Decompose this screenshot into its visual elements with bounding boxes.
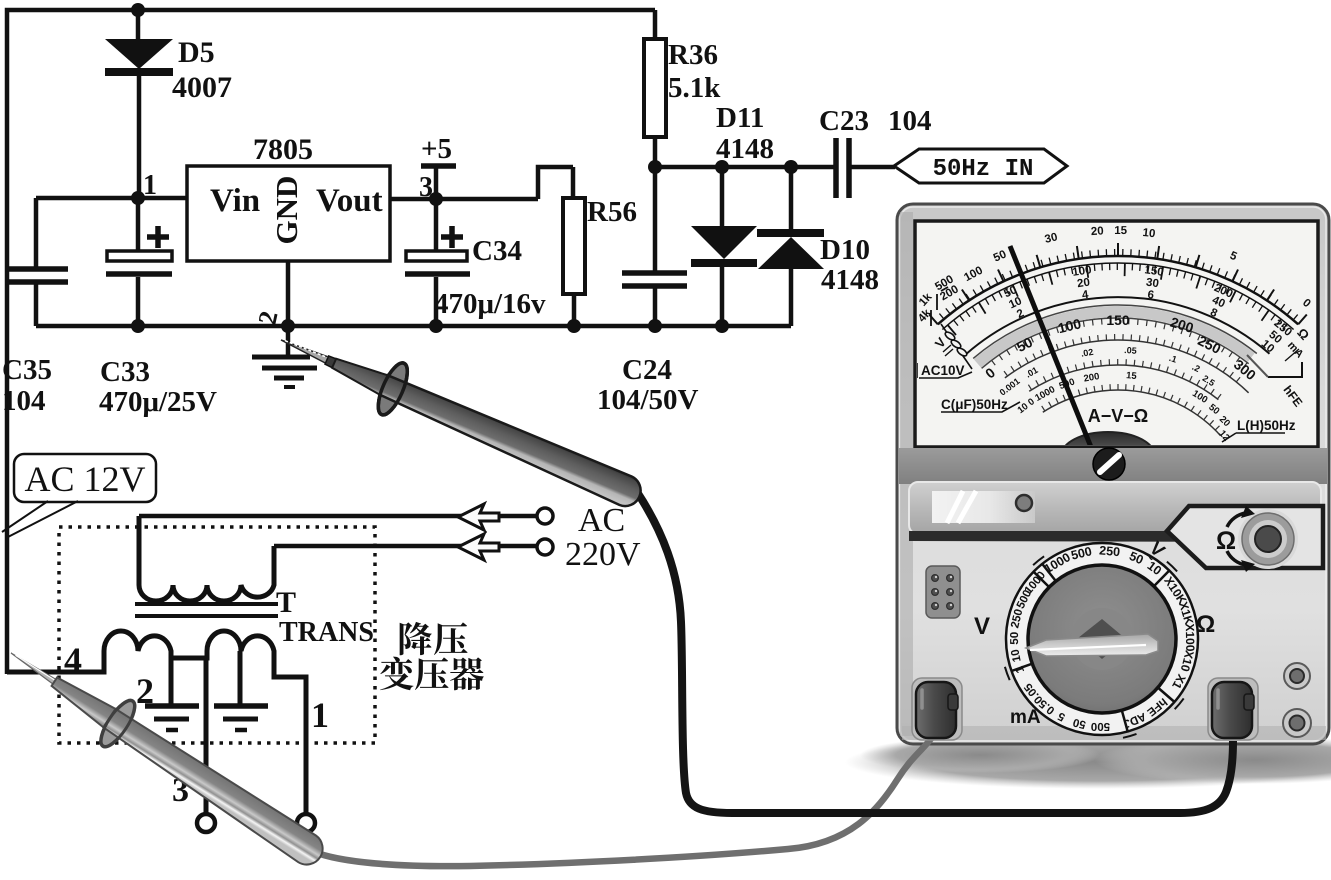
- svg-text:AC: AC: [578, 502, 625, 539]
- svg-text:20: 20: [1090, 225, 1104, 238]
- svg-text:470μ/16v: 470μ/16v: [434, 288, 546, 320]
- svg-text:500: 500: [1091, 720, 1110, 732]
- svg-text:C34: C34: [472, 235, 522, 267]
- svg-text:4007: 4007: [172, 71, 232, 104]
- svg-text:mA: mA: [1010, 707, 1041, 728]
- svg-text:104/50V: 104/50V: [597, 384, 699, 416]
- svg-text:20: 20: [1076, 277, 1090, 291]
- svg-text:GND: GND: [269, 176, 304, 245]
- svg-text:C33: C33: [100, 356, 150, 388]
- svg-text:AC 12V: AC 12V: [24, 459, 145, 499]
- svg-text:250: 250: [1099, 543, 1121, 559]
- svg-text:C23: C23: [819, 105, 869, 137]
- svg-text:A−V−Ω: A−V−Ω: [1088, 406, 1148, 426]
- svg-text:V: V: [974, 613, 990, 640]
- svg-text:C(μF)50Hz: C(μF)50Hz: [941, 397, 1008, 412]
- svg-text:220V: 220V: [565, 536, 641, 573]
- svg-text:AC10V: AC10V: [921, 363, 965, 378]
- svg-text:15: 15: [1114, 225, 1127, 237]
- svg-text:Vout: Vout: [316, 183, 383, 219]
- svg-text:3: 3: [419, 172, 433, 203]
- svg-text:.02: .02: [1080, 347, 1094, 359]
- svg-text:15: 15: [1126, 370, 1138, 382]
- svg-text:150: 150: [1106, 312, 1130, 328]
- svg-text:470μ/25V: 470μ/25V: [99, 386, 217, 418]
- svg-text:TRANS: TRANS: [279, 617, 374, 648]
- svg-text:50Hz IN: 50Hz IN: [933, 156, 1034, 183]
- svg-text:R56: R56: [587, 196, 637, 228]
- svg-text:10: 10: [1142, 227, 1156, 240]
- svg-text:T: T: [276, 586, 296, 619]
- svg-text:2: 2: [136, 671, 154, 711]
- svg-text:C35: C35: [2, 354, 52, 386]
- svg-text:D5: D5: [178, 36, 215, 69]
- svg-text:104: 104: [2, 385, 46, 417]
- svg-text:R36: R36: [668, 39, 718, 71]
- svg-text:7805: 7805: [253, 133, 313, 166]
- svg-text:1: 1: [143, 170, 157, 201]
- svg-text:Ω: Ω: [1216, 527, 1236, 555]
- svg-text:104: 104: [888, 105, 932, 137]
- svg-text:C24: C24: [622, 354, 672, 386]
- svg-text:.05: .05: [1124, 345, 1137, 356]
- svg-text:L(H)50Hz: L(H)50Hz: [1237, 418, 1296, 433]
- svg-text:4: 4: [64, 640, 82, 680]
- svg-text:D10: D10: [820, 234, 870, 266]
- svg-text:1: 1: [311, 695, 329, 735]
- svg-text:10: 10: [1009, 648, 1023, 663]
- svg-text:50: 50: [1009, 632, 1021, 645]
- svg-text:30: 30: [1145, 277, 1159, 291]
- svg-text:4148: 4148: [716, 133, 774, 165]
- svg-text:D11: D11: [716, 102, 764, 134]
- svg-text:Ω: Ω: [1196, 611, 1215, 638]
- svg-text:4148: 4148: [821, 264, 879, 296]
- svg-text:+5: +5: [421, 133, 452, 165]
- svg-text:5.1k: 5.1k: [668, 72, 721, 104]
- svg-text:Vin: Vin: [210, 183, 260, 219]
